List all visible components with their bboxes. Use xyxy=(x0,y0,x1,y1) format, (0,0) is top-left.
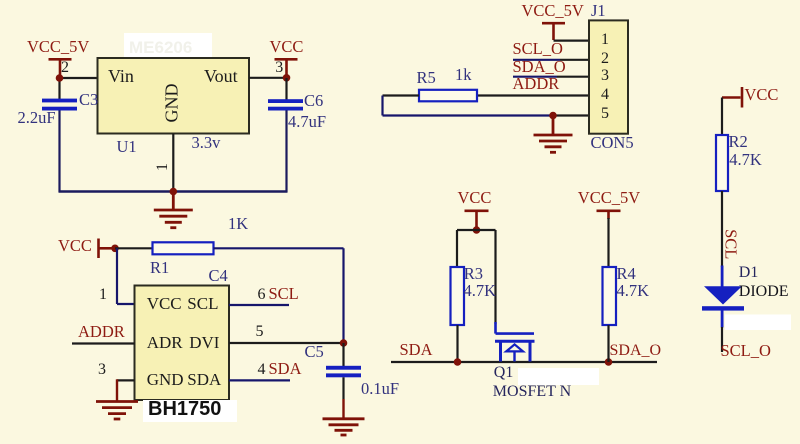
pin number 2 (J1) xyxy=(601,51,609,67)
resistor R2 body xyxy=(716,135,728,191)
white patch near Q1 xyxy=(518,368,599,385)
net label SCL_O xyxy=(513,41,563,58)
wire junction to C3 xyxy=(58,77,60,99)
power symbol VCC (level shifter) xyxy=(465,211,489,227)
white patch below DIODE xyxy=(725,315,791,331)
net label ADDR xyxy=(513,76,560,93)
value label DIODE xyxy=(739,284,789,300)
pin name SDA (chip) xyxy=(187,371,221,388)
wire diode to SCL_O xyxy=(721,327,723,352)
transistor Q1 MOSFET N symbol xyxy=(495,322,535,362)
wire chip SDA pin 4 xyxy=(229,379,290,381)
pin number 1 (chip) xyxy=(99,287,107,303)
wire U1 Vout to pin3 node xyxy=(249,77,287,79)
net label VCC (R2 column) xyxy=(745,87,779,104)
pin number 3 xyxy=(275,60,283,76)
wire C6 to bottom rail xyxy=(285,110,287,192)
pin number 4 (J1) xyxy=(601,87,609,103)
wire C5 to ground xyxy=(342,377,344,399)
designator R5 xyxy=(417,70,436,87)
node junction VCC / R1 / pin1 xyxy=(111,245,119,253)
net label VCC (R1) xyxy=(58,238,92,255)
pin number 1 (J1) xyxy=(601,32,609,48)
pin name GND (chip) xyxy=(147,371,184,388)
ground symbol (regulator) xyxy=(154,192,193,228)
wire R3 to SDA node xyxy=(456,325,458,362)
pin number 1 (rotated) xyxy=(155,163,171,171)
resistor R1 body xyxy=(153,242,214,254)
node junction DVI / C5 xyxy=(340,339,348,347)
pin name Vout xyxy=(204,67,238,85)
wire gate (VCC node down to Q1 gate) xyxy=(494,230,496,324)
wire J1 pin 1 xyxy=(554,39,590,41)
pin name GND (rotated) xyxy=(163,82,181,125)
wire VCC node down to chip pin 1 xyxy=(116,248,118,304)
wire J1 pin 2 (SCL_O) xyxy=(513,59,560,61)
part name BH1750 xyxy=(148,399,221,419)
wire VCC node to R1 xyxy=(115,247,153,249)
regulator U1 body xyxy=(98,58,250,134)
pin number 5 (chip) xyxy=(256,324,264,340)
value label 3.3v xyxy=(192,135,221,152)
wire VCC_5V to R4 xyxy=(607,218,609,267)
wire U1 GND pin to rail xyxy=(172,134,174,192)
net label VCC_5V (shifter) xyxy=(578,190,640,207)
power symbol VCC (R2 column) rotated xyxy=(722,87,742,108)
value label 4.7K (R3) xyxy=(464,283,497,300)
resistor R4 body xyxy=(603,267,617,325)
value label 2.2uF xyxy=(18,110,56,127)
diode D1 xyxy=(702,266,744,328)
net label SCL_O xyxy=(721,343,771,360)
wire chip DVI pin to C5 node xyxy=(229,342,344,344)
net label SCL (rotated) xyxy=(722,229,739,259)
net label VCC_5V (J1) xyxy=(522,3,584,20)
wire R1 to right vertical xyxy=(214,247,344,249)
designator C5 xyxy=(305,344,324,361)
net label VCC_5V (regulator) xyxy=(27,39,89,56)
value label MOSFET N xyxy=(493,384,571,400)
net label SDA_O xyxy=(610,343,662,359)
wire VCC node horizontal xyxy=(457,229,496,231)
wire J1 pin 4 from R5 (ADDR) xyxy=(477,94,589,96)
white patch watermark above U1 xyxy=(124,33,212,58)
connector J1 body xyxy=(589,20,628,133)
pin name DVI (chip) xyxy=(189,334,219,351)
pin name VCC (chip) xyxy=(147,295,182,312)
designator R4 xyxy=(617,266,636,283)
wire ADDR to chip ADR pin xyxy=(72,342,135,344)
power symbol VCC_5V (J1 pin1) xyxy=(542,23,565,40)
value label 0.1uF xyxy=(361,381,399,398)
resistor R3 body xyxy=(451,267,465,325)
pin number 5 (J1) xyxy=(601,106,609,122)
wire down to R3 xyxy=(456,230,458,267)
node junction pin5 / ground xyxy=(549,112,557,120)
value label 4.7uF xyxy=(288,114,326,131)
wire J1 pin 3 (SDA_O) xyxy=(513,76,557,78)
wire R4 to SDA_O node xyxy=(607,325,609,362)
ground symbol (chip GND) xyxy=(96,402,138,420)
net label SDA (chip pin4) xyxy=(269,361,302,378)
designator R1 xyxy=(150,260,169,277)
wire junction to C6 xyxy=(285,78,287,100)
designator C4 xyxy=(209,268,228,285)
designator J1 xyxy=(591,3,606,20)
capacitor C5 plates xyxy=(326,366,361,378)
wire chip GND pin 3 xyxy=(117,379,135,381)
value label 1K (R1) xyxy=(228,216,248,233)
wire right vertical down to pin5/C5 node xyxy=(342,248,344,343)
pin number 6 (chip) xyxy=(258,287,266,303)
net label SDA_O xyxy=(513,59,566,76)
net label ADDR (chip) xyxy=(78,324,125,341)
wire node to C5 xyxy=(342,343,344,366)
value label 4.7K (R4) xyxy=(617,283,650,300)
value label C6 xyxy=(304,93,323,110)
ground symbol (C5) xyxy=(323,419,365,435)
svg-text:ME6206: ME6206 xyxy=(129,38,192,57)
node junction SDA_O / R4 xyxy=(605,358,613,366)
wire pin2 to U1 Vin xyxy=(60,77,99,79)
net label VCC (regulator out) xyxy=(270,39,304,56)
power symbol VCC_5V (R4) xyxy=(597,211,621,219)
value label 4.7K (R2) xyxy=(729,152,762,169)
node junction at VCC_5V / C3 xyxy=(56,74,64,82)
pin number 3 (J1) xyxy=(601,68,609,84)
capacitor C3 plates xyxy=(42,99,77,111)
wire VCC to R2 xyxy=(721,98,723,136)
wire R5 left lead xyxy=(383,94,420,96)
node junction GND rail xyxy=(170,188,178,196)
value label CON5 xyxy=(591,135,634,152)
designator D1 xyxy=(739,265,759,281)
net label SDA xyxy=(400,342,433,359)
wire J1 pin 5 row xyxy=(383,114,554,116)
pin number 4 (chip) xyxy=(258,362,266,378)
resistor R5 body xyxy=(419,90,477,102)
power symbol VCC (regulator output) xyxy=(275,59,298,75)
bottom ground rail wire xyxy=(59,190,288,192)
pin name SCL (chip) xyxy=(187,295,218,312)
chip C4 BH1750 body xyxy=(135,286,230,401)
wire SDA row xyxy=(391,361,657,363)
designator R3 xyxy=(464,266,483,283)
designator U1 xyxy=(117,139,137,156)
value label C3 xyxy=(79,92,98,109)
node junction at VCC / C6 xyxy=(283,74,291,82)
power symbol VCC (R1 / BH1750) rotated xyxy=(99,239,113,259)
designator Q1 xyxy=(494,365,514,381)
node junction SDA / R3 xyxy=(454,358,462,366)
pin name ADR (chip) xyxy=(147,334,183,351)
white patch behind BH1750 label xyxy=(143,400,237,422)
capacitor C6 plates xyxy=(268,99,303,110)
designator R2 xyxy=(729,134,748,151)
wire loop R5 to pin5 (left vertical) xyxy=(381,96,383,116)
pin number 2 xyxy=(61,60,69,76)
wire chip SCL pin 6 xyxy=(229,304,289,306)
pin number 3 (chip) xyxy=(98,362,106,378)
node junction VCC / R3 / gate xyxy=(473,226,481,234)
net label VCC (shifter) xyxy=(458,190,492,207)
ground symbol (J1 pin5) xyxy=(534,116,573,153)
net label SCL (chip pin6) xyxy=(269,286,299,303)
wire C3 to bottom rail xyxy=(58,111,60,193)
pin name Vin xyxy=(108,67,134,85)
power symbol VCC_5V (regulator input) xyxy=(49,59,72,75)
wire R2 to diode (SCL net) xyxy=(721,191,723,267)
value label 1k xyxy=(455,67,472,84)
